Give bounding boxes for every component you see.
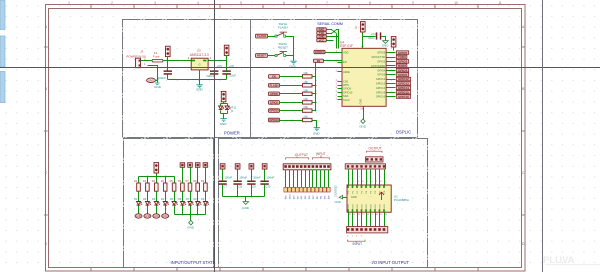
svg-text:2: 2 (356, 235, 358, 237)
svg-text:IO9: IO9 (309, 195, 311, 199)
svg-text:TXD0: TXD0 (398, 55, 406, 59)
svg-text:GND: GND (220, 122, 228, 126)
svg-text:D7: D7 (186, 198, 190, 201)
svg-text:GPIO16: GPIO16 (376, 95, 386, 99)
svg-text:INPUT: INPUT (353, 242, 363, 246)
svg-text:10k: 10k (303, 71, 308, 75)
svg-text:B: B (45, 87, 48, 91)
svg-text:100nF: 100nF (253, 175, 261, 179)
svg-text:16: 16 (376, 214, 379, 216)
svg-text:8: 8 (380, 181, 382, 183)
svg-text:11: 11 (498, 1, 502, 5)
svg-text:D: D (231, 109, 233, 113)
svg-text:10: 10 (454, 1, 458, 5)
svg-text:LED: LED (361, 204, 363, 209)
svg-text:D: D (522, 242, 525, 246)
svg-text:GPIO6: GPIO6 (398, 73, 408, 77)
svg-text:EN: EN (343, 60, 347, 64)
svg-text:EN: EN (317, 60, 321, 63)
svg-text:1: 1 (349, 181, 351, 183)
svg-text:IO5: IO5 (325, 195, 327, 199)
svg-text:C: C (45, 171, 48, 175)
svg-text:D6: D6 (178, 198, 182, 201)
svg-text:IO1: IO1 (321, 195, 323, 199)
svg-text:GPIO1/TXD: GPIO1/TXD (371, 55, 385, 59)
svg-text:LED: LED (352, 204, 354, 209)
svg-text:INPUT/OUTPUT STATE: INPUT/OUTPUT STATE (171, 260, 216, 265)
svg-text:7: 7 (326, 1, 328, 5)
svg-text:3: 3 (361, 235, 363, 237)
svg-text:Fuse: Fuse (153, 55, 160, 59)
svg-text:1: 1 (336, 87, 338, 89)
svg-text:GPIO2: GPIO2 (398, 60, 408, 64)
svg-text:1: 1 (68, 1, 70, 5)
svg-text:100n: 100n (368, 36, 375, 40)
svg-text:IO7: IO7 (317, 195, 319, 199)
svg-text:12: 12 (358, 214, 361, 216)
svg-text:13: 13 (362, 214, 365, 216)
svg-text:GPIO14: GPIO14 (376, 86, 386, 90)
svg-text:C9: C9 (252, 184, 256, 188)
svg-text:GPIO6: GPIO6 (377, 73, 385, 77)
svg-text:GPIO13: GPIO13 (376, 82, 386, 86)
svg-text:SDA: SDA (343, 94, 349, 98)
svg-text:GND: GND (136, 215, 142, 218)
svg-text:GND: GND (313, 131, 321, 135)
svg-text:10k: 10k (303, 105, 308, 109)
svg-text:D2: D2 (143, 198, 147, 201)
svg-text:7: 7 (376, 181, 378, 183)
svg-text:GND: GND (148, 78, 154, 82)
svg-text:IO8: IO8 (329, 195, 331, 199)
svg-text:GPIO0: GPIO0 (270, 92, 278, 96)
svg-text:GPIO9: GPIO9 (343, 87, 351, 91)
svg-text:IO7: IO7 (297, 195, 299, 199)
svg-text:GPIO13: GPIO13 (398, 82, 409, 86)
svg-text:8: 8 (369, 1, 371, 5)
svg-text:LED: LED (348, 204, 350, 209)
svg-text:OUTPUT: OUTPUT (369, 147, 382, 151)
svg-text:GND: GND (335, 200, 341, 204)
svg-text:LED: LED (366, 204, 368, 209)
svg-text:11: 11 (353, 214, 356, 216)
svg-text:AMS1117-3.3: AMS1117-3.3 (190, 53, 209, 57)
svg-text:1: 1 (144, 62, 146, 66)
svg-text:PCA9685A: PCA9685A (394, 198, 409, 202)
svg-text:SERIAL COMM: SERIAL COMM (317, 22, 343, 26)
svg-text:A: A (45, 25, 48, 29)
svg-text:GPIO15: GPIO15 (315, 51, 324, 54)
svg-text:1: 1 (336, 91, 338, 93)
svg-text:GND: GND (163, 215, 169, 218)
svg-text:C7: C7 (223, 184, 227, 188)
svg-text:EN: EN (272, 75, 276, 79)
svg-text:GPIO16: GPIO16 (398, 95, 409, 99)
svg-text:5: 5 (367, 181, 369, 183)
svg-text:4: 4 (197, 1, 199, 5)
svg-text:C8: C8 (238, 184, 242, 188)
svg-text:IO1: IO1 (301, 195, 303, 199)
svg-text:GPIO15: GPIO15 (376, 90, 386, 94)
svg-text:GPIO10: GPIO10 (343, 91, 353, 95)
svg-text:GPIO5: GPIO5 (377, 51, 385, 55)
svg-text:D1: D1 (134, 198, 138, 201)
svg-text:U3: U3 (197, 49, 201, 53)
svg-text:D8: D8 (193, 198, 197, 201)
svg-text:1: 1 (336, 98, 338, 100)
svg-text:3: 3 (358, 181, 360, 183)
svg-text:VCC: VCC (319, 38, 325, 42)
svg-text:D9: D9 (201, 198, 205, 201)
svg-text:10k: 10k (303, 88, 308, 92)
svg-text:GPIO15: GPIO15 (269, 109, 279, 113)
svg-text:GPIO12: GPIO12 (398, 77, 409, 81)
svg-text:100nF: 100nF (158, 76, 167, 80)
svg-text:100nF: 100nF (206, 74, 215, 78)
svg-text:GPIO15: GPIO15 (398, 90, 409, 94)
svg-text:0: 0 (347, 235, 349, 237)
svg-text:C: C (522, 171, 525, 175)
svg-text:IO5: IO5 (305, 195, 307, 199)
svg-text:1: 1 (336, 95, 338, 97)
svg-text:DSPLIC: DSPLIC (396, 130, 411, 135)
svg-text:RXD: RXD (319, 28, 325, 32)
svg-text:GPIO14: GPIO14 (398, 86, 409, 90)
svg-text:10: 10 (349, 214, 352, 216)
svg-text:GND: GND (351, 195, 357, 199)
svg-text:GND: GND (145, 215, 151, 218)
svg-text:5: 5 (240, 1, 242, 5)
svg-text:6: 6 (371, 181, 373, 183)
svg-text:J5: J5 (355, 26, 358, 30)
svg-text:TXD: TXD (319, 31, 324, 35)
svg-text:CS0: CS0 (343, 80, 349, 84)
svg-text:INPUT: INPUT (316, 152, 326, 156)
svg-text:GPIO2: GPIO2 (377, 60, 385, 64)
svg-text:2: 2 (111, 1, 113, 5)
svg-text:GPIO13: GPIO13 (269, 118, 279, 122)
svg-text:100nF: 100nF (224, 175, 232, 179)
svg-text:14: 14 (367, 214, 370, 216)
svg-text:J3: J3 (140, 50, 144, 54)
svg-text:3: 3 (154, 1, 156, 5)
svg-text:9: 9 (385, 181, 387, 183)
svg-text:2: 2 (210, 56, 212, 60)
svg-text:18: 18 (385, 214, 388, 216)
svg-text:SCLK: SCLK (343, 98, 350, 102)
svg-text:VDD: VDD (343, 51, 349, 55)
svg-text:10k: 10k (303, 97, 308, 101)
svg-text:GPIO12: GPIO12 (376, 77, 386, 81)
svg-text:GPIO5: GPIO5 (398, 51, 408, 55)
svg-text:FLASH: FLASH (278, 26, 288, 30)
svg-text:D: D (45, 242, 48, 246)
svg-text:G: G (199, 62, 201, 66)
svg-text:GND: GND (154, 85, 162, 89)
svg-text:4: 4 (362, 181, 364, 183)
svg-text:1: 1 (352, 235, 354, 237)
svg-text:A0DE: A0DE (343, 70, 350, 74)
svg-text:15: 15 (371, 214, 374, 216)
svg-text:GND: GND (154, 215, 160, 218)
svg-text:GND: GND (196, 88, 204, 92)
svg-text:12k: 12k (303, 115, 308, 119)
svg-text:10k: 10k (303, 80, 308, 84)
svg-text:D5: D5 (170, 198, 174, 201)
svg-text:I/O INPUT OUTPUT: I/O INPUT OUTPUT (372, 260, 410, 265)
svg-text:GND: GND (382, 43, 390, 47)
svg-text:D4: D4 (161, 198, 165, 201)
svg-text:D3: D3 (152, 198, 156, 201)
svg-text:LED: LED (370, 204, 372, 209)
svg-text:GND: GND (242, 206, 250, 210)
svg-text:C/LR2032: C/LR2032 (333, 185, 337, 197)
svg-text:GND: GND (187, 225, 195, 229)
svg-text:1: 1 (336, 80, 338, 82)
svg-text:17: 17 (380, 214, 383, 216)
svg-text:GND: GND (359, 99, 363, 105)
svg-text:FLASH: FLASH (257, 34, 266, 38)
svg-text:LED: LED (357, 204, 359, 209)
svg-text:100nF: 100nF (266, 175, 274, 179)
svg-text:WPS: WPS (343, 83, 349, 87)
svg-text:C10: C10 (265, 184, 270, 188)
svg-text:POWER: POWER (224, 131, 240, 136)
svg-text:FLASH: FLASH (270, 83, 279, 87)
svg-text:GPIO4: GPIO4 (377, 68, 385, 72)
svg-text:IO3: IO3 (313, 195, 315, 199)
svg-text:ESP-01F: ESP-01F (340, 44, 353, 48)
svg-text:LED: LED (384, 204, 386, 209)
svg-text:IO3: IO3 (293, 195, 295, 199)
svg-text:RESET: RESET (257, 54, 266, 58)
svg-text:LED: LED (375, 204, 377, 209)
svg-text:LED: LED (379, 204, 381, 209)
svg-text:6: 6 (283, 1, 285, 5)
svg-text:GND: GND (319, 35, 325, 39)
svg-text:GPIO2: GPIO2 (270, 101, 278, 105)
svg-text:GND: GND (359, 124, 367, 128)
svg-text:1: 1 (336, 70, 338, 72)
svg-text:RESET: RESET (278, 46, 288, 50)
svg-text:1: 1 (336, 84, 338, 86)
svg-text:OUTPUT: OUTPUT (295, 153, 308, 157)
svg-text:IO6: IO6 (286, 195, 288, 199)
svg-text:2: 2 (353, 181, 355, 183)
svg-text:100nF: 100nF (239, 175, 247, 179)
svg-text:IO10: IO10 (290, 194, 292, 200)
svg-text:9: 9 (412, 1, 414, 5)
svg-text:GPIO4: GPIO4 (398, 68, 408, 72)
svg-text:22uF: 22uF (229, 74, 236, 78)
